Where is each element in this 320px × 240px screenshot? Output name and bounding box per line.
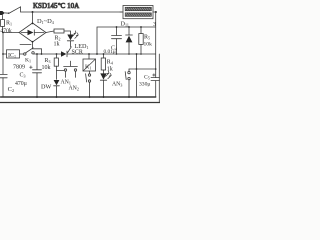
relay coil K1 (83, 54, 96, 71)
border bottom (0, 102, 160, 104)
wire R2 to LED1 (64, 31, 71, 35)
svg-text:D11: D11 (121, 21, 129, 28)
svg-text:10k: 10k (42, 65, 51, 71)
capacitor C2 (0, 74, 7, 97)
svg-text:470μ: 470μ (15, 81, 27, 87)
zener DW (54, 80, 60, 97)
LED LED1 (67, 31, 78, 47)
pushbutton AN2 (86, 71, 91, 97)
capacitor C4 (112, 27, 122, 54)
svg-text:1k: 1k (54, 42, 60, 48)
svg-text:330μ: 330μ (139, 82, 150, 88)
wire bridge bottom drop (33, 42, 42, 54)
pushbutton AN1 (57, 61, 78, 77)
heater EH (hatched element) (120, 6, 157, 19)
svg-text:AN1: AN1 (61, 79, 71, 85)
svg-text:AN2: AN2 (69, 86, 79, 92)
resistor R5 (139, 27, 143, 54)
node top-bridge junction (32, 11, 34, 13)
svg-text:10k: 10k (144, 42, 153, 48)
border right (158, 54, 160, 103)
svg-text:K1: K1 (85, 65, 91, 71)
resistor R3 (54, 54, 58, 79)
wire right edge vertical (155, 12, 157, 78)
wire W2 right rail (97, 27, 156, 54)
resistor R2 (54, 29, 64, 33)
svg-text:R5: R5 (144, 35, 150, 41)
capacitor C3 electrolytic (30, 54, 42, 97)
wire IC1 top stub (20, 44, 31, 46)
LED LED2 (100, 71, 111, 97)
svg-text:C5: C5 (144, 75, 150, 81)
svg-text:KSD145℃ 10A: KSD145℃ 10A (33, 2, 79, 10)
resistor R4 (101, 54, 105, 73)
svg-text:DW: DW (41, 84, 51, 91)
svg-text:C2: C2 (8, 86, 14, 93)
wire top bus (21, 11, 122, 13)
svg-text:R4: R4 (107, 60, 113, 66)
svg-text:K1: K1 (25, 58, 31, 64)
svg-text:D1~D4: D1~D4 (37, 18, 54, 25)
thyristor SCR (61, 47, 71, 57)
svg-text:7809: 7809 (13, 65, 25, 71)
wire left rail down (2, 33, 4, 75)
diode D11 (126, 27, 133, 54)
wire mid rail W3 (34, 53, 61, 55)
svg-text:IC1: IC1 (8, 53, 16, 59)
svg-text:R1: R1 (6, 21, 12, 27)
svg-text:0.01μ: 0.01μ (104, 49, 116, 55)
pushbutton AN3 (125, 69, 130, 97)
svg-text:C3: C3 (20, 73, 26, 79)
wire bridge top drop (32, 12, 34, 23)
wire bridge left (3, 32, 19, 34)
plug P (0, 11, 9, 15)
wire bottom bus (1, 96, 156, 98)
wire K2 branch vertical (136, 54, 138, 97)
bridge D1-D4 (19, 23, 46, 43)
svg-text:SCR: SCR (72, 50, 83, 56)
svg-text:R3: R3 (45, 58, 51, 64)
switch KSD (thermostat) (9, 7, 21, 14)
relay contact K1-1 (24, 48, 35, 55)
resistor R1 (1, 15, 5, 32)
wire lower-right link (129, 68, 156, 70)
svg-text:470k: 470k (0, 28, 12, 34)
wire bridge right to R2 (46, 31, 54, 33)
wire IC1 output (20, 53, 24, 55)
wire IC1 input (3, 53, 7, 55)
node left rail tap (2, 32, 4, 34)
capacitor C5 electrolytic (151, 68, 160, 97)
svg-text:1k: 1k (107, 67, 113, 73)
svg-text:AN3: AN3 (112, 82, 122, 88)
IC U1 box (7, 50, 20, 58)
